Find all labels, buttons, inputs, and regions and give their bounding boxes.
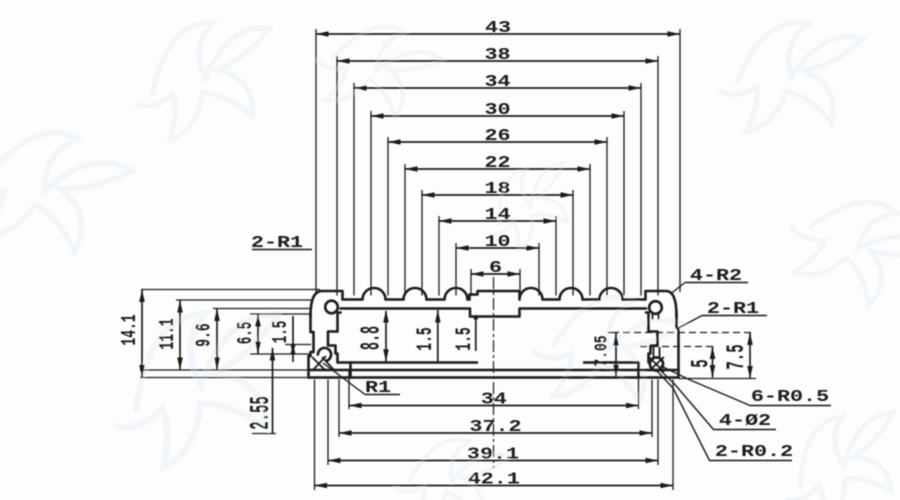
vertical centre line: [493, 277, 495, 468]
dimension 1.5 (centre boss wall): [453, 315, 478, 351]
extension lines of top dimensions: [316, 29, 680, 296]
label 4-Ø2: [659, 369, 776, 430]
left boss inner wall: [328, 313, 341, 363]
dimension 11.1: [157, 300, 182, 370]
svg-text:4-Ø2: 4-Ø2: [719, 411, 771, 430]
label 6-R0.5: [661, 366, 831, 406]
dimension 2.55: [247, 348, 277, 434]
label 2-R0.2: [657, 371, 793, 461]
left boss bottom wall: [349, 363, 352, 378]
extension line 14.1 top: [141, 289, 320, 291]
svg-text:10: 10: [484, 232, 510, 251]
svg-text:34: 34: [484, 72, 510, 91]
svg-text:42.1: 42.1: [468, 470, 520, 489]
dimension 38 (top): [337, 45, 658, 64]
extension line floor left: [140, 369, 309, 371]
screw channel bottom-left: [312, 348, 334, 371]
screw channel top-left: [325, 301, 338, 314]
extension line 6.5 bottom: [250, 353, 311, 355]
right boss inner wall: [646, 313, 658, 363]
extension line 9.6 top: [213, 308, 311, 310]
dimension 34 (top): [354, 72, 641, 91]
dimension 37.2 (bottom): [339, 417, 652, 436]
dimension 10 (top): [456, 232, 539, 251]
dimension 7.05: [591, 333, 618, 378]
dimension 14.1: [119, 290, 144, 378]
svg-text:6: 6: [489, 258, 502, 277]
hidden line at lower slot level: [640, 346, 716, 348]
profile right outer wall: [677, 314, 679, 378]
svg-text:5: 5: [688, 359, 716, 367]
dimension 14 (top): [439, 205, 556, 224]
svg-text:11.1: 11.1: [157, 318, 180, 349]
svg-text:6-R0.5: 6-R0.5: [751, 387, 829, 406]
cavity floor ledge right: [583, 361, 639, 364]
screw channel top-right: [649, 301, 662, 319]
profile outer bottom: [309, 376, 679, 379]
svg-text:30: 30: [484, 100, 510, 119]
dimension 1.5 (top wall): [414, 310, 441, 362]
svg-text:1.5: 1.5: [269, 321, 293, 343]
hidden line at screw slot level: [612, 332, 753, 334]
right boss bottom wall: [637, 363, 640, 378]
dimension 42.1 (bottom): [315, 470, 674, 489]
profile bottom groove line: [309, 369, 678, 372]
label 4-R2: [671, 266, 748, 293]
svg-text:1.5: 1.5: [453, 327, 477, 350]
extension line 11.1 top: [176, 299, 311, 301]
dimension 1.5 (left stack): [269, 316, 311, 362]
dimension 9.6: [194, 309, 220, 371]
label 2-R1 (top left): [251, 233, 312, 252]
dimension 8.8: [357, 310, 389, 362]
svg-text:7.5: 7.5: [723, 344, 751, 369]
screw channel bottom-right: [648, 347, 664, 372]
label R1: [323, 363, 400, 397]
svg-text:39.1: 39.1: [467, 445, 519, 464]
svg-text:14: 14: [484, 205, 510, 224]
svg-text:43: 43: [485, 18, 511, 37]
svg-text:8.8: 8.8: [357, 326, 387, 350]
cavity ceiling: [341, 309, 647, 317]
svg-text:14.1: 14.1: [119, 314, 142, 345]
dimension 6.5: [234, 314, 261, 354]
dimension 30 (top): [371, 100, 624, 119]
profile top edge with fins: [311, 288, 677, 316]
svg-text:1.5: 1.5: [414, 327, 438, 350]
extension line 6.5 top: [250, 313, 311, 315]
label 2-R1 (right): [678, 299, 768, 328]
svg-text:9.6: 9.6: [194, 323, 217, 346]
dimension 6 (top): [471, 258, 520, 277]
dimension 43 (top): [316, 18, 680, 37]
profile left outer wall: [309, 314, 314, 378]
svg-text:2-R0.2: 2-R0.2: [715, 442, 793, 461]
dimension 5: [688, 347, 716, 378]
dimension 34 (bottom): [349, 390, 639, 409]
extension line bottom left: [140, 377, 309, 379]
extension lines of bottom dimensions: [315, 371, 674, 490]
cavity floor ledge left: [338, 361, 479, 364]
svg-text:22: 22: [484, 153, 510, 172]
svg-text:38: 38: [484, 45, 510, 64]
svg-text:6.5: 6.5: [234, 322, 258, 344]
svg-text:37.2: 37.2: [469, 417, 521, 436]
svg-text:18: 18: [484, 179, 510, 198]
dimension 39.1 (bottom): [328, 445, 658, 464]
dimension 18 (top): [422, 179, 573, 198]
svg-text:2.55: 2.55: [247, 396, 277, 430]
svg-text:26: 26: [484, 126, 510, 145]
svg-text:34: 34: [481, 390, 507, 409]
dimension 7.5: [679, 333, 757, 379]
dimension 22 (top): [405, 153, 590, 172]
svg-text:7.05: 7.05: [591, 335, 612, 366]
dimension 26 (top): [388, 126, 607, 145]
